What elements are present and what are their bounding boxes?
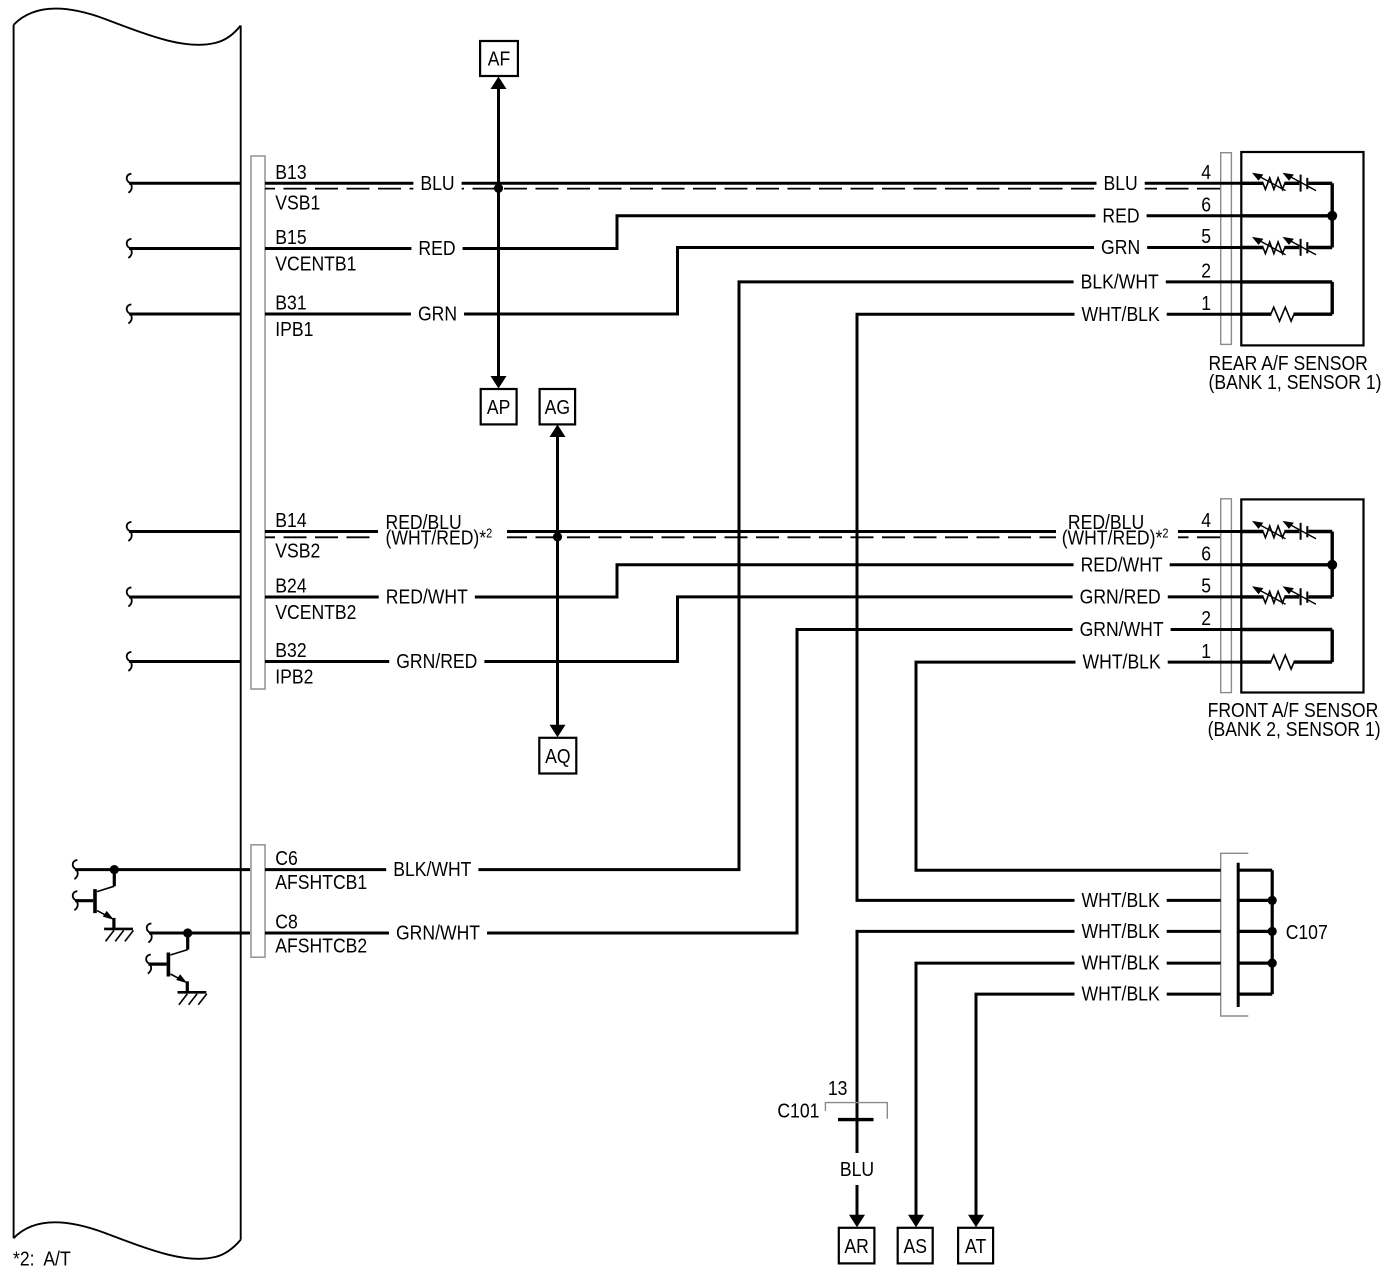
wire B31 GRN (PCM side) — [127, 304, 132, 323]
wire WHT/BLK front pin 1 to C107 — [916, 662, 1241, 870]
label RED/WHT (right) — [1074, 554, 1170, 577]
footnote *2: A/T — [13, 1247, 71, 1269]
wire RED/BLU solid run — [265, 530, 1241, 533]
wire BLU solid run — [265, 182, 1241, 185]
svg-text:B15: B15 — [275, 226, 306, 248]
wire C8 GRN/WHT (PCM side) — [149, 932, 250, 935]
svg-text:13: 13 — [828, 1077, 848, 1099]
front A/F pin 6 internal wire — [1241, 563, 1332, 566]
wire WHT/BLK C107 to C101 — [857, 931, 1221, 1118]
svg-text:RED/WHT: RED/WHT — [386, 586, 469, 608]
svg-text:6: 6 — [1201, 193, 1211, 215]
rear sensor pin number 1 — [1201, 292, 1211, 314]
caption rear sensor — [1209, 352, 1368, 374]
svg-text:WHT/BLK: WHT/BLK — [1081, 952, 1160, 974]
svg-text:AFSHTCB2: AFSHTCB2 — [275, 934, 367, 956]
label 13 (C101 cavity) — [828, 1077, 848, 1099]
svg-text:(BANK 2, SENSOR 1): (BANK 2, SENSOR 1) — [1208, 718, 1381, 740]
pin label B13/VSB1 — [275, 161, 306, 183]
svg-text:BLK/WHT: BLK/WHT — [393, 858, 472, 880]
rear A/F pump cell (pin 4) — [1241, 182, 1263, 185]
caption front sensor — [1208, 699, 1379, 721]
svg-text:B24: B24 — [275, 574, 306, 596]
svg-text:B13: B13 — [275, 161, 306, 183]
rear sensor pin number 2 — [1201, 260, 1211, 282]
wire RED run + step to pin 6 — [265, 216, 1241, 249]
label WHT/BLK (C107 row 5) — [1074, 984, 1166, 1007]
svg-text:C101: C101 — [777, 1099, 819, 1121]
svg-text:5: 5 — [1201, 225, 1211, 247]
svg-text:AG: AG — [545, 396, 570, 418]
connector C101 (pin 13) — [825, 1103, 887, 1119]
rear A/F cell common vertical — [1330, 183, 1333, 247]
front A/F pump cell (pin 4) — [1241, 530, 1263, 533]
svg-text:AT: AT — [965, 1235, 987, 1257]
svg-text:AF: AF — [488, 48, 510, 70]
pin label B14/VSB2 — [275, 509, 306, 531]
connector C107 bar — [1221, 853, 1249, 1016]
svg-text:5: 5 — [1201, 575, 1211, 597]
svg-text:WHT/BLK: WHT/BLK — [1081, 303, 1160, 325]
rear A/F sensor box — [1241, 152, 1363, 345]
front sensor pin number 1 — [1201, 640, 1211, 662]
destination box AQ — [539, 738, 576, 774]
label GRN/WHT (left) — [389, 923, 487, 946]
wire RED/WHT run + step to pin 6 — [265, 565, 1241, 597]
label BLK/WHT (left) — [386, 859, 478, 882]
svg-text:BLU: BLU — [840, 1158, 874, 1180]
svg-text:BLK/WHT: BLK/WHT — [1081, 270, 1160, 292]
svg-text:BLU: BLU — [1103, 172, 1137, 194]
wire WHT/BLK C107 to AT — [976, 994, 1221, 1216]
wire BLK/WHT run up to rear pin 2 — [265, 282, 1241, 870]
rear sensor connector bar — [1221, 153, 1232, 345]
svg-text:VCENTB1: VCENTB1 — [275, 252, 356, 274]
rear sensor pin number 6 — [1201, 193, 1211, 215]
ground for Q1 — [104, 928, 133, 931]
svg-text:(WHT/RED)*2: (WHT/RED)*2 — [386, 527, 493, 549]
rear sensor pin number 5 — [1201, 225, 1211, 247]
svg-text:(WHT/RED)*2: (WHT/RED)*2 — [1062, 527, 1169, 549]
svg-text:VCENTB2: VCENTB2 — [275, 601, 356, 623]
svg-text:B31: B31 — [275, 291, 306, 313]
svg-text:WHT/BLK: WHT/BLK — [1081, 983, 1160, 1005]
label WHT/BLK (front pin 1) — [1075, 652, 1167, 675]
svg-text:1: 1 — [1201, 640, 1211, 662]
front A/F heater (pins 2-1) — [1241, 628, 1332, 631]
label GRN/RED (left) — [389, 651, 484, 674]
label GRN/RED (right) — [1073, 587, 1168, 610]
ground for Q2 — [178, 991, 207, 994]
svg-text:GRN/WHT: GRN/WHT — [1080, 618, 1164, 640]
wire GRN/WHT run up to front pin 2 — [265, 630, 1241, 934]
svg-text:GRN/RED: GRN/RED — [396, 650, 477, 672]
svg-text:6: 6 — [1201, 542, 1211, 564]
label GRN (right) — [1094, 237, 1147, 260]
wire B14 RED/BLU (PCM side) — [127, 522, 132, 541]
front sensor connector bar — [1221, 499, 1232, 693]
front sensor pin number 6 — [1201, 542, 1211, 564]
label WHT/BLK (rear pin 1) — [1074, 304, 1166, 327]
label BLK/WHT (right) — [1074, 272, 1166, 295]
label RED/BLU (right, two-line) — [1056, 513, 1178, 553]
rear A/F reference cell (pin 5) — [1241, 246, 1263, 249]
label RED/WHT (left) — [379, 587, 475, 610]
label RED (right) — [1095, 205, 1146, 228]
svg-text:*2: A/T: *2: A/T — [13, 1247, 71, 1269]
svg-text:BLU: BLU — [420, 172, 454, 194]
rear sensor pin number 4 — [1201, 161, 1211, 183]
PCM connector bar (B pins) — [251, 156, 265, 689]
destination box AG — [540, 389, 576, 424]
svg-text:GRN/WHT: GRN/WHT — [396, 922, 480, 944]
svg-text:WHT/BLK: WHT/BLK — [1081, 889, 1160, 911]
svg-text:B32: B32 — [275, 639, 306, 661]
PCM connector bar (C6/C8 pins) — [251, 845, 265, 957]
svg-text:RED: RED — [418, 237, 455, 259]
C107 bus junction dots — [1268, 896, 1277, 905]
svg-text:GRN/RED: GRN/RED — [1080, 585, 1161, 607]
pin label C8/AFSHTCB2 — [275, 910, 297, 932]
label WHT/BLK (C107 row 2) — [1074, 890, 1166, 913]
svg-text:IPB2: IPB2 — [275, 665, 313, 687]
pin label B15/VCENTB1 — [275, 226, 306, 248]
destination box AT — [958, 1228, 993, 1264]
rear A/F internal junction — [1327, 211, 1337, 221]
wire B32 GRN/RED (PCM side) — [127, 652, 132, 671]
wire WHT/BLK C107 to AS — [916, 963, 1221, 1216]
pin label B31/IPB1 — [275, 291, 306, 313]
svg-text:AQ: AQ — [545, 745, 570, 767]
wire B24 RED/WHT (PCM side) — [127, 587, 132, 606]
svg-text:1: 1 — [1201, 292, 1211, 314]
wire GRN run + step to pin 5 — [265, 248, 1241, 315]
label RED (left) — [411, 238, 462, 261]
front A/F sensor box — [1241, 499, 1363, 692]
svg-text:RED/WHT: RED/WHT — [1081, 553, 1164, 575]
pin label C6/AFSHTCB1 — [275, 847, 297, 869]
label GRN (left) — [411, 304, 464, 327]
label RED/BLU (left, two-line) — [378, 513, 507, 553]
svg-text:WHT/BLK: WHT/BLK — [1081, 920, 1160, 942]
junction on RED/BLU pair — [553, 532, 562, 541]
PCM/ECM block outline (torn edges) — [14, 9, 241, 45]
transistor Q1 (AFSHTCB1 driver) — [73, 860, 78, 879]
arrow line AG-AQ — [556, 437, 559, 725]
wire GRN/RED run + step to pin 5 — [265, 597, 1241, 662]
wire RED/BLU dashed pair — [265, 536, 1221, 538]
svg-text:GRN: GRN — [418, 303, 457, 325]
wire B13 BLU (PCM side) — [127, 174, 132, 193]
destination box AF — [480, 41, 518, 76]
svg-text:B14: B14 — [275, 509, 306, 531]
svg-text:VSB2: VSB2 — [275, 539, 320, 561]
front sensor pin number 5 — [1201, 575, 1211, 597]
label BLU (right) — [1096, 173, 1144, 196]
svg-text:2: 2 — [1201, 260, 1211, 282]
C107 internal stubs and bus — [1238, 869, 1272, 872]
wire B15 RED (PCM side) — [127, 239, 132, 258]
wire BLU C101 to AR — [856, 1120, 859, 1154]
destination box AP — [481, 389, 517, 424]
svg-text:IPB1: IPB1 — [275, 318, 313, 340]
wire C6 BLK/WHT (PCM side) — [75, 868, 250, 871]
transistor Q2 (AFSHTCB2 driver) — [147, 923, 152, 942]
label C101 — [777, 1099, 819, 1121]
wire BLU dashed pair — [265, 188, 1221, 190]
svg-text:4: 4 — [1201, 509, 1211, 531]
svg-text:AFSHTCB1: AFSHTCB1 — [275, 871, 367, 893]
svg-text:WHT/BLK: WHT/BLK — [1082, 651, 1161, 673]
front sensor pin number 2 — [1201, 607, 1211, 629]
label BLU (left) — [413, 173, 461, 196]
destination box AS — [898, 1228, 933, 1264]
front A/F cell common vertical — [1330, 532, 1333, 597]
pin label B24/VCENTB2 — [275, 574, 306, 596]
label WHT/BLK (C107 row 3) — [1074, 921, 1166, 944]
pin label B32/IPB2 — [275, 639, 306, 661]
label GRN/WHT (right) — [1073, 619, 1171, 642]
svg-text:4: 4 — [1201, 161, 1211, 183]
rear A/F pin 6 internal wire — [1241, 214, 1332, 217]
wire WHT/BLK rear pin 1 to C107 — [857, 314, 1241, 900]
rear A/F heater (pins 2-1) — [1241, 280, 1332, 283]
svg-text:AS: AS — [903, 1235, 926, 1257]
front sensor pin number 4 — [1201, 509, 1211, 531]
destination box AR — [839, 1228, 875, 1264]
svg-text:C8: C8 — [275, 910, 297, 932]
svg-text:VSB1: VSB1 — [275, 191, 320, 213]
label C107 — [1286, 921, 1328, 943]
svg-text:C107: C107 — [1286, 921, 1328, 943]
junction on BLU pair — [494, 184, 503, 193]
arrow line AF-AP — [497, 89, 500, 376]
svg-text:RED: RED — [1102, 204, 1139, 226]
svg-text:AP: AP — [487, 396, 510, 418]
front A/F reference cell (pin 5) — [1241, 595, 1263, 598]
svg-text:GRN: GRN — [1101, 236, 1140, 258]
svg-text:(BANK 1, SENSOR 1): (BANK 1, SENSOR 1) — [1209, 371, 1382, 393]
svg-text:2: 2 — [1201, 607, 1211, 629]
svg-text:AR: AR — [844, 1235, 868, 1257]
label WHT/BLK (C107 row 4) — [1074, 953, 1166, 976]
label BLU (C101-AR wire) — [833, 1159, 881, 1182]
svg-text:C6: C6 — [275, 847, 297, 869]
front A/F internal junction — [1327, 560, 1337, 570]
